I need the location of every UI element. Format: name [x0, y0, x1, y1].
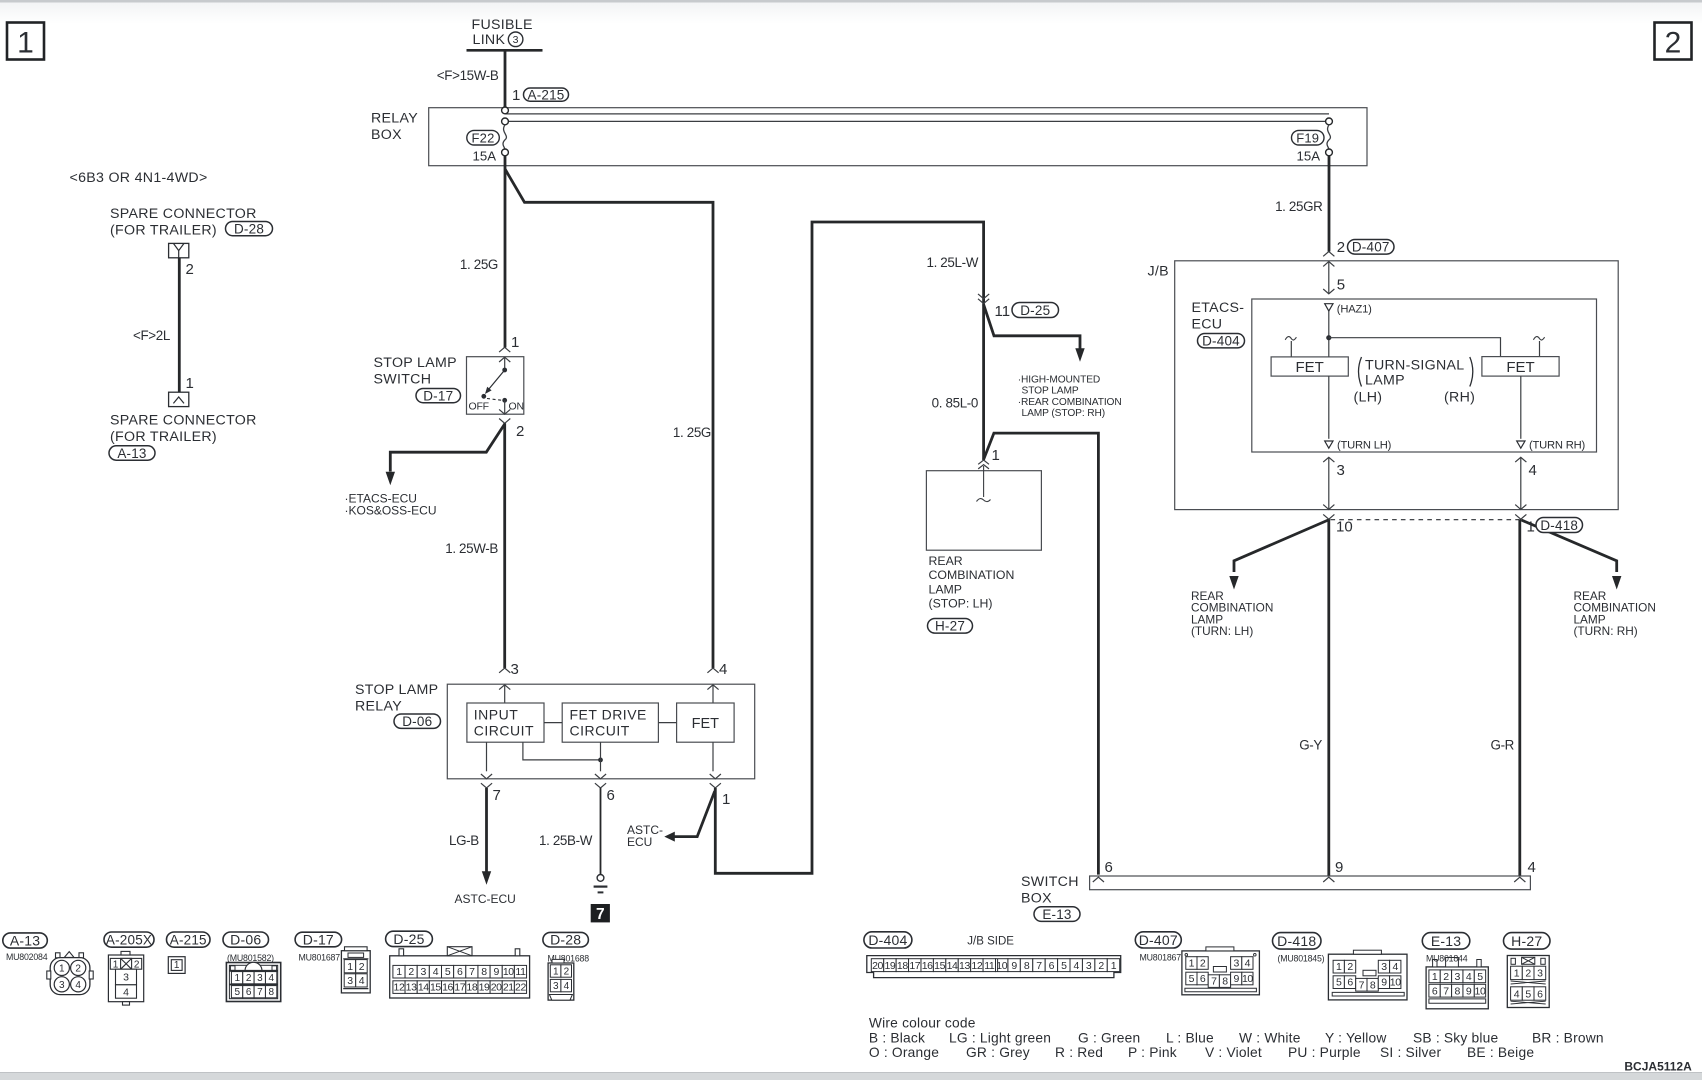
connector D-407 pinout label	[1135, 932, 1181, 948]
branch wire to high-mounted stop lamp arrow	[984, 305, 1080, 349]
fuse F22 label	[467, 130, 500, 145]
svg-text:6: 6	[1049, 960, 1055, 972]
junction circles at A-215 entry	[502, 107, 509, 125]
svg-text:8: 8	[1370, 979, 1376, 991]
switch box	[1090, 876, 1531, 890]
arrow to ASTC-ECU	[482, 871, 491, 885]
svg-text:LAMP: LAMP	[1365, 373, 1405, 389]
right FET gate lead	[1533, 337, 1544, 357]
arrow to rear combination lamp turn RH	[1612, 576, 1621, 590]
double chevron at H-27 pin 1	[978, 460, 989, 469]
svg-text:2: 2	[359, 961, 365, 973]
svg-text:BCJA5112A: BCJA5112A	[1624, 1060, 1692, 1074]
svg-text:5: 5	[1337, 277, 1345, 294]
wire D-418 pin 1 to switch box pin 4 (G-R)	[1518, 519, 1521, 876]
svg-text:FET: FET	[1296, 359, 1324, 376]
svg-text:14: 14	[947, 960, 958, 972]
stop lamp relay label	[355, 682, 438, 715]
svg-text:G : Green: G : Green	[1078, 1030, 1140, 1045]
wire colour code row 2	[869, 1045, 1534, 1060]
junction circle at F19 top	[1326, 118, 1333, 125]
svg-text:4: 4	[719, 661, 727, 678]
svg-text:MU801867: MU801867	[1140, 953, 1182, 963]
wire pin 3 through J/B bottom	[1323, 457, 1334, 519]
svg-text:2: 2	[186, 261, 194, 278]
svg-text:INPUT: INPUT	[474, 707, 519, 723]
svg-text:FET DRIVE: FET DRIVE	[570, 707, 647, 723]
svg-text:7: 7	[596, 906, 605, 923]
connector D-25 reference label	[1012, 303, 1059, 318]
svg-text:4: 4	[1074, 960, 1080, 972]
connector chevrons at D-06 pin 1	[710, 774, 721, 788]
svg-text:17: 17	[909, 960, 920, 972]
svg-text:A-205X: A-205X	[106, 932, 152, 947]
svg-text:D-06: D-06	[230, 932, 261, 948]
connector D-06 pinout label	[223, 932, 269, 947]
svg-text:6: 6	[246, 987, 252, 998]
svg-text:SWITCH: SWITCH	[1021, 874, 1079, 890]
svg-text:G-R: G-R	[1491, 738, 1515, 753]
connector chevrons at D-06 pin 3	[499, 668, 510, 690]
svg-text:SPARE CONNECTOR: SPARE CONNECTOR	[110, 206, 257, 222]
svg-text:1: 1	[553, 966, 559, 977]
junction dot (HAZ1 node)	[1326, 335, 1331, 340]
svg-text:1: 1	[17, 27, 34, 60]
svg-text:B : Black: B : Black	[869, 1030, 925, 1045]
ASTC-ECU destination text (relay pin 1)	[627, 823, 663, 849]
svg-text:17: 17	[454, 982, 465, 994]
svg-text:1: 1	[1432, 971, 1438, 983]
svg-text:(LH): (LH)	[1354, 390, 1383, 406]
svg-text:2: 2	[75, 964, 81, 975]
switch OFF contact	[481, 394, 486, 399]
rear combination lamp (stop LH) label	[929, 554, 1015, 611]
svg-text:LAMP (STOP: RH): LAMP (STOP: RH)	[1022, 408, 1106, 419]
svg-text:<F>2L: <F>2L	[133, 328, 170, 343]
svg-text:2: 2	[1347, 961, 1353, 973]
svg-text:·HIGH-MOUNTED: ·HIGH-MOUNTED	[1018, 375, 1100, 386]
connector E-13 pinout label	[1422, 933, 1470, 950]
svg-text:1: 1	[722, 791, 730, 808]
svg-text:D-418: D-418	[1277, 933, 1316, 949]
svg-text:1: 1	[59, 964, 65, 975]
link input to fet drive	[544, 722, 562, 724]
svg-text:(TURN RH): (TURN RH)	[1529, 440, 1585, 452]
wire D-25 to rear combination lamp (0.85L-O)	[982, 304, 985, 460]
svg-text:15A: 15A	[473, 149, 497, 164]
svg-text:7: 7	[1211, 976, 1217, 988]
link to right FET	[1329, 338, 1501, 357]
svg-text:·KOS&OSS-ECU: ·KOS&OSS-ECU	[345, 503, 437, 517]
svg-text:4: 4	[1245, 958, 1251, 970]
relay box label	[371, 111, 418, 144]
wire <F>2L between spare connectors	[178, 258, 181, 392]
svg-text:Y : Yellow: Y : Yellow	[1325, 1030, 1387, 1045]
svg-text:MU802084: MU802084	[6, 952, 48, 962]
fet box	[677, 703, 735, 742]
connector A-13 reference label	[109, 446, 155, 460]
svg-text:16: 16	[922, 960, 933, 972]
svg-text:J/B SIDE: J/B SIDE	[967, 936, 1014, 948]
svg-text:FUSIBLE: FUSIBLE	[472, 17, 533, 33]
arrow to high-mounted stop lamp	[1075, 348, 1084, 362]
wire pin 4 into FET	[712, 685, 714, 703]
connector E-13 pinout drawing	[1426, 958, 1488, 1009]
svg-text:(MU801582): (MU801582)	[227, 953, 274, 963]
svg-text:(TURN: LH): (TURN: LH)	[1191, 624, 1253, 638]
svg-text:BOX: BOX	[371, 127, 402, 143]
svg-text:1. 25G: 1. 25G	[460, 257, 498, 272]
svg-text:3: 3	[1086, 960, 1092, 972]
svg-text:22: 22	[515, 982, 526, 994]
svg-text:9: 9	[1335, 859, 1343, 876]
svg-text:3: 3	[553, 981, 559, 992]
svg-text:STOP LAMP: STOP LAMP	[355, 682, 438, 698]
svg-text:2: 2	[564, 966, 570, 977]
svg-text:9: 9	[1466, 985, 1472, 997]
svg-text:4: 4	[1529, 462, 1537, 479]
svg-text:14: 14	[418, 982, 429, 994]
svg-text:RELAY: RELAY	[355, 699, 402, 715]
connector A-215 label	[524, 88, 569, 101]
svg-text:10: 10	[1242, 973, 1253, 985]
svg-text:18: 18	[466, 982, 477, 994]
svg-text:ETACS-: ETACS-	[1192, 300, 1245, 316]
stop lamp relay box	[447, 684, 754, 779]
svg-text:3: 3	[1233, 958, 1239, 970]
fusible link 3 label	[472, 17, 533, 48]
svg-text:1: 1	[512, 87, 520, 104]
svg-text:BE : Beige: BE : Beige	[1467, 1045, 1534, 1060]
svg-text:15A: 15A	[1297, 149, 1321, 164]
left FET gate lead	[1285, 337, 1296, 357]
svg-text:4: 4	[1528, 859, 1536, 876]
svg-text:8: 8	[1455, 985, 1461, 997]
svg-text:D-404: D-404	[1202, 334, 1240, 349]
connector H-27 reference label	[928, 619, 973, 634]
input circuit to pin 7 stub	[486, 742, 488, 771]
svg-text:H-27: H-27	[935, 619, 965, 634]
svg-text:FET: FET	[692, 716, 720, 732]
svg-text:5: 5	[1061, 960, 1067, 972]
svg-text:5: 5	[1336, 977, 1342, 989]
branch wire to rear combination lamp turn LH	[1234, 520, 1328, 572]
svg-text:12: 12	[971, 960, 982, 972]
TURN LH output triangle	[1325, 441, 1333, 448]
bulb lead and filament squiggle	[977, 466, 991, 502]
svg-text:3: 3	[513, 34, 519, 46]
svg-text:7: 7	[257, 987, 263, 998]
connector D-407 reference label	[1348, 240, 1395, 255]
turn-signal lamp parenthetical label	[1354, 357, 1476, 406]
arrow to ETACS-ECU / KOS&OSS-ECU	[386, 472, 395, 486]
wire pin 1 down and around to D-25 riser	[715, 222, 983, 873]
chevron at E-13 pin 4	[1514, 877, 1525, 882]
svg-text:11: 11	[995, 303, 1011, 320]
connector D-25 pinout drawing	[390, 947, 530, 998]
svg-text:D-25: D-25	[1020, 303, 1050, 318]
wire pin 7 to ASTC-ECU (LG-B)	[485, 788, 488, 872]
link fet drive to fet	[658, 722, 676, 724]
svg-text:D-407: D-407	[1352, 240, 1390, 255]
fet drive to pin 6 stub	[600, 742, 602, 771]
wire HAZ1 to junction dot	[1328, 311, 1330, 357]
svg-text:4: 4	[75, 980, 81, 991]
connector A-215 pinout drawing	[168, 957, 185, 974]
connector D-404 pinout label	[864, 932, 912, 948]
svg-text:A-13: A-13	[117, 446, 146, 461]
svg-text:9: 9	[1381, 977, 1387, 989]
svg-text:19: 19	[884, 960, 895, 972]
rear combination lamp (turn RH) text	[1574, 589, 1656, 638]
svg-text:H-27: H-27	[1511, 933, 1542, 949]
svg-text:R : Red: R : Red	[1055, 1045, 1103, 1060]
svg-text:MU801687: MU801687	[299, 953, 341, 963]
connector chevrons at D-06 pin 4	[707, 668, 718, 690]
svg-text:Wire colour code: Wire colour code	[869, 1016, 976, 1031]
connector chevrons at D-06 pin 7	[481, 774, 492, 788]
svg-text:13: 13	[406, 982, 417, 994]
svg-text:LINK: LINK	[473, 32, 506, 48]
svg-text:6: 6	[457, 966, 463, 978]
right FET box	[1482, 357, 1559, 377]
spare connector A-13 terminal symbol	[169, 392, 189, 406]
svg-text:2: 2	[1443, 971, 1449, 983]
svg-text:3: 3	[1337, 462, 1345, 479]
switch ON contact	[502, 398, 507, 403]
svg-text:4: 4	[1393, 961, 1399, 973]
svg-text:21: 21	[503, 982, 514, 994]
svg-text:LG : Light green: LG : Light green	[949, 1030, 1051, 1045]
switch box label	[1021, 874, 1079, 907]
svg-text:D-418: D-418	[1540, 518, 1578, 533]
svg-text:(RH): (RH)	[1444, 390, 1475, 406]
svg-text:1: 1	[186, 375, 194, 392]
svg-text:LAMP: LAMP	[929, 582, 963, 596]
svg-text:1: 1	[396, 966, 402, 978]
wire left FET to TURN LH out	[1328, 376, 1330, 439]
wire colour code row 1	[869, 1030, 1604, 1045]
svg-text:RELAY: RELAY	[371, 111, 418, 127]
svg-text:1. 25G: 1. 25G	[673, 425, 711, 440]
page marker 2	[1655, 23, 1692, 60]
svg-text:4: 4	[433, 966, 439, 978]
svg-text:9: 9	[1233, 973, 1239, 985]
svg-text:D-25: D-25	[393, 931, 424, 947]
svg-text:4: 4	[1514, 988, 1520, 1000]
wire stop lamp switch to relay pin 3 (1.25W-B)	[503, 423, 506, 668]
svg-text:6: 6	[1537, 988, 1543, 1000]
svg-text:<F>15W-B: <F>15W-B	[437, 68, 499, 83]
fet drive circuit box	[562, 703, 658, 742]
wire F22 to stop lamp switch (1.25G)	[504, 156, 507, 348]
connector D-06 pinout drawing	[226, 962, 280, 1001]
svg-text:6: 6	[607, 787, 615, 804]
ETACS-ECU label	[1192, 300, 1245, 333]
svg-text:3: 3	[511, 661, 519, 678]
svg-text:BR : Brown: BR : Brown	[1532, 1030, 1604, 1045]
connector chevrons at D-407 pin 2	[1323, 252, 1334, 267]
svg-text:MU801844: MU801844	[1426, 953, 1468, 963]
svg-text:STOP LAMP: STOP LAMP	[1022, 386, 1079, 397]
svg-text:6: 6	[1432, 985, 1438, 997]
svg-text:2: 2	[134, 959, 140, 970]
wire pin 10 to switch box pin 9 (G-Y)	[1327, 519, 1330, 876]
svg-text:LG-B: LG-B	[449, 833, 479, 848]
switch dashed travel line	[487, 399, 502, 401]
wire pin 3 into input circuit	[504, 685, 506, 703]
svg-text:15: 15	[934, 960, 945, 972]
svg-text:2: 2	[516, 423, 524, 440]
svg-text:15: 15	[430, 982, 441, 994]
fuse F19	[1326, 125, 1333, 156]
svg-text:1: 1	[1514, 968, 1520, 980]
svg-text:3: 3	[347, 975, 353, 987]
ETACS-ECU / KOS&OSS-ECU destination text	[345, 492, 437, 518]
spare connector (for trailer) A-13 label	[110, 413, 257, 446]
svg-text:11: 11	[984, 960, 995, 972]
svg-text:2: 2	[1098, 960, 1104, 972]
svg-text:P : Pink: P : Pink	[1128, 1045, 1177, 1060]
svg-text:2: 2	[1665, 27, 1682, 60]
svg-text:W : White: W : White	[1239, 1030, 1301, 1045]
connector A-13 pinout drawing	[47, 952, 93, 995]
svg-text:TURN-SIGNAL: TURN-SIGNAL	[1365, 358, 1464, 374]
svg-text:7: 7	[1036, 960, 1042, 972]
svg-text:SI : Silver: SI : Silver	[1380, 1045, 1441, 1060]
svg-text:6: 6	[1105, 859, 1113, 876]
svg-text:(STOP: LH): (STOP: LH)	[929, 597, 993, 611]
connector D-418 pinout label	[1273, 933, 1322, 950]
chevron at E-13 pin 9	[1323, 877, 1334, 882]
connector H-27 pinout drawing	[1507, 956, 1549, 1008]
connector chevrons at D-17 pin 2	[499, 409, 510, 423]
ETACS-ECU box	[1252, 299, 1597, 452]
svg-text:D-17: D-17	[303, 932, 334, 948]
svg-text:BOX: BOX	[1021, 891, 1052, 907]
branch wire to switch box pin 6	[984, 433, 1099, 874]
svg-text:D-407: D-407	[1139, 932, 1178, 948]
svg-text:COMBINATION: COMBINATION	[929, 568, 1015, 582]
svg-text:(MU801845): (MU801845)	[1278, 953, 1325, 963]
bus bar lines inside relay box	[505, 114, 1329, 122]
svg-text:7: 7	[493, 787, 501, 804]
svg-text:D-28: D-28	[234, 221, 264, 236]
svg-text:4: 4	[269, 973, 275, 984]
svg-text:1: 1	[1111, 960, 1117, 972]
svg-text:(HAZ1): (HAZ1)	[1337, 304, 1372, 316]
svg-text:SPARE CONNECTOR: SPARE CONNECTOR	[110, 413, 257, 429]
HAZ1 input triangle	[1325, 304, 1333, 311]
input circuit box	[467, 703, 544, 742]
spare connector D-28 terminal symbol	[169, 243, 189, 257]
svg-text:1: 1	[174, 960, 180, 971]
svg-text:ON: ON	[509, 401, 524, 413]
svg-text:F22: F22	[472, 130, 495, 145]
svg-text:J/B: J/B	[1148, 264, 1169, 280]
branch wire to ASTC-ECU arrow	[674, 791, 715, 837]
svg-text:9: 9	[1011, 960, 1017, 972]
input circuit to junction stub	[523, 742, 601, 760]
connector H-27 pinout label	[1504, 933, 1551, 950]
wire right FET to TURN RH out	[1520, 376, 1522, 439]
spare connector (for trailer) D-28 label	[110, 206, 257, 239]
svg-text:20: 20	[872, 960, 883, 972]
svg-text:2: 2	[1200, 958, 1206, 970]
svg-text:6: 6	[1347, 977, 1353, 989]
branch wire to rear combination lamp turn RH	[1521, 520, 1616, 572]
chevron at E-13 pin 6	[1093, 877, 1104, 882]
svg-text:0. 85L-0: 0. 85L-0	[932, 396, 978, 411]
svg-text:D-06: D-06	[402, 714, 432, 729]
svg-text:1. 25W-B: 1. 25W-B	[445, 541, 498, 556]
connector chevrons at D-17 pin 1	[499, 347, 510, 362]
svg-text:REAR: REAR	[929, 554, 963, 568]
svg-text:3: 3	[123, 972, 129, 984]
svg-text:GR : Grey: GR : Grey	[966, 1045, 1030, 1060]
connector A-205X pinout drawing	[108, 951, 143, 1005]
wire fusible link to relay box (15W-B)	[504, 50, 507, 107]
svg-text:4: 4	[564, 981, 570, 992]
connector D-17 reference label	[416, 389, 461, 403]
svg-text:FET: FET	[1506, 359, 1534, 376]
svg-text:OFF: OFF	[469, 401, 489, 413]
ground symbol	[594, 875, 608, 893]
switch output wire to pin 2	[504, 400, 506, 414]
fuse F22	[502, 125, 509, 156]
svg-text:8: 8	[1222, 976, 1228, 988]
svg-text:ECU: ECU	[1192, 317, 1223, 333]
svg-text:4: 4	[359, 975, 365, 987]
connector D-404 pinout drawing	[867, 956, 1121, 978]
svg-text:5: 5	[445, 966, 451, 978]
svg-text:PU : Purple: PU : Purple	[1288, 1045, 1361, 1060]
connector A-13 pinout label	[3, 933, 48, 948]
stop lamp switch box	[467, 357, 524, 415]
svg-text:7: 7	[1359, 979, 1365, 991]
svg-text:9: 9	[493, 966, 499, 978]
wire pin 6 to ground (1.25B-W)	[600, 788, 602, 874]
svg-text:1: 1	[347, 961, 353, 973]
svg-text:2: 2	[1525, 968, 1531, 980]
svg-text:4: 4	[1466, 971, 1472, 983]
svg-text:STOP LAMP: STOP LAMP	[374, 355, 457, 371]
branch wire to ETACS/KOS arrow	[390, 424, 504, 472]
wire D-407 pin 2 to pin 5 end	[1323, 262, 1334, 294]
svg-text:1. 25B-W: 1. 25B-W	[539, 833, 593, 848]
connector A-215 pinout label	[167, 932, 211, 947]
connector A-205X pinout label	[104, 932, 154, 947]
svg-text:3: 3	[1537, 968, 1543, 980]
junction dot	[598, 758, 603, 763]
svg-text:1: 1	[1527, 519, 1535, 536]
ground reference 7 (black square)	[591, 904, 610, 923]
svg-text:A-215: A-215	[170, 932, 207, 947]
svg-text:SWITCH: SWITCH	[374, 372, 432, 388]
svg-text:5: 5	[1477, 971, 1483, 983]
svg-text:10: 10	[503, 966, 514, 978]
connector chevrons at D-25 pin 11	[978, 294, 989, 304]
connector D-17 pinout drawing	[341, 947, 370, 993]
svg-text:10: 10	[1390, 977, 1401, 989]
wire pin 4 through J/B bottom	[1515, 457, 1526, 519]
TURN RH output triangle	[1517, 441, 1525, 448]
svg-text:E-13: E-13	[1431, 933, 1461, 949]
connector chevrons at D-06 pin 6	[595, 774, 606, 788]
svg-text:3: 3	[1455, 971, 1461, 983]
svg-text:D-17: D-17	[423, 388, 453, 403]
arrow to ASTC-ECU (relay pin 1)	[664, 832, 675, 842]
